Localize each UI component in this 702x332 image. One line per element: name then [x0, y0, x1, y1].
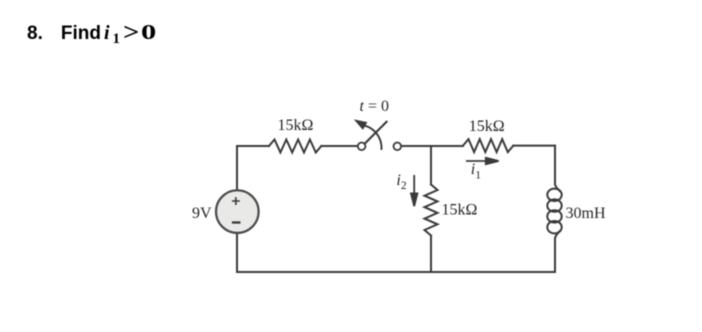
svg-text:15kΩ: 15kΩ [278, 117, 314, 134]
svg-text:30mH: 30mH [566, 205, 606, 222]
svg-text:15kΩ: 15kΩ [442, 202, 478, 219]
svg-text:t = 0: t = 0 [360, 98, 389, 115]
svg-text:i1: i1 [471, 161, 481, 182]
svg-text:15kΩ: 15kΩ [469, 118, 505, 135]
svg-text:9V: 9V [192, 205, 212, 222]
svg-text:i2: i2 [396, 172, 406, 192]
